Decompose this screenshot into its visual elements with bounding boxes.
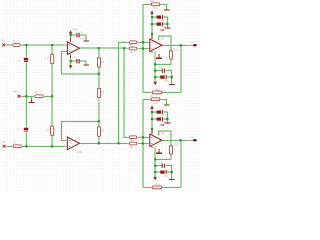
wire cross column to op3 soft bbox=[119, 42, 128, 143]
op-amp IC1A +/- marks bbox=[69, 45, 70, 51]
pin stubs op3 inputs bbox=[147, 42, 150, 48]
wire input row B bbox=[6, 145, 67, 147]
red plus marks caps bbox=[160, 29, 164, 31]
wire cross column to op4 bbox=[124, 48, 127, 137]
junction op3 output bbox=[180, 44, 182, 46]
junction out1 cross bbox=[123, 47, 125, 49]
junction op3 -in bottom bbox=[142, 47, 144, 49]
wire big feedback loop bbox=[143, 45, 181, 92]
junction capA left bbox=[154, 70, 156, 72]
wire op1 V+ rail bbox=[71, 34, 87, 41]
op-amp IC1A pin stubs bbox=[65, 45, 68, 51]
wire VCC column op3 soft bbox=[151, 14, 153, 39]
svg-text:R11: R11 bbox=[173, 49, 178, 52]
op-amp IC1B bbox=[67, 137, 79, 150]
resistor mid pair top A bbox=[130, 41, 137, 44]
cap op1 bottom plates bbox=[77, 59, 79, 64]
op-amp IC1A power pins bbox=[70, 37, 72, 58]
resistor R5c chain bbox=[97, 127, 100, 136]
wire gnd stub mid bbox=[30, 96, 32, 99]
junction capB left bbox=[154, 76, 156, 78]
junction VCC cap1 bbox=[151, 16, 153, 18]
wire cross column to op3 bbox=[119, 42, 128, 143]
resistor mid pair top B bbox=[130, 47, 137, 50]
wire -in column op3 bbox=[142, 4, 144, 92]
wire out row op3 bbox=[162, 44, 188, 46]
wire out op2 row bbox=[79, 142, 127, 144]
wire -in op1 branch soft bbox=[61, 51, 98, 73]
gnd bar op1 bottom cap bbox=[84, 64, 90, 66]
cap C2 pin bbox=[25, 126, 27, 133]
labels left bbox=[1, 29, 105, 154]
power pin op3 top bbox=[151, 34, 153, 39]
resistor R loop top bbox=[151, 3, 160, 6]
resistor R1 bbox=[13, 44, 20, 47]
op-amp IC2A +/- marks bbox=[151, 42, 152, 48]
wire input row B soft bbox=[6, 145, 67, 147]
junction out1 bbox=[98, 47, 100, 49]
junction node A2 bbox=[51, 44, 53, 46]
junction fb A bbox=[98, 73, 100, 75]
resistor mid pair bottom A bbox=[130, 136, 137, 139]
cap C1 plate bbox=[24, 60, 28, 62]
wire -in op1 branch bbox=[61, 51, 98, 73]
wire out op1 row bbox=[79, 47, 127, 49]
op-amp IC1B +/- marks bbox=[69, 140, 70, 146]
lead R2 leads bbox=[33, 95, 44, 97]
X connector IN B bbox=[3, 145, 6, 148]
cap B elec plate bbox=[165, 75, 167, 79]
X connector IN mid bbox=[18, 95, 21, 98]
lead R1b leads bbox=[6, 145, 23, 147]
cap C1 body bbox=[24, 58, 28, 61]
VCC arrow op3 bbox=[150, 10, 154, 14]
junction op1 V+ bbox=[70, 34, 72, 36]
wire R3 branch down soft bbox=[51, 45, 53, 146]
junction capB right bbox=[171, 76, 173, 78]
VEE arrow op1 bbox=[69, 65, 72, 68]
gnd bar below op3 bbox=[156, 57, 162, 59]
power pin op3 bottom bbox=[151, 52, 153, 53]
svg-text:INR: INR bbox=[1, 141, 6, 144]
svg-text:IC2A: IC2A bbox=[159, 38, 165, 41]
junction node A1 bbox=[25, 44, 27, 46]
X out pad bbox=[193, 44, 197, 46]
wire capB row soft bbox=[155, 76, 172, 78]
wire comp box op3 soft bbox=[158, 36, 171, 51]
resistor R5b chain bbox=[97, 88, 100, 97]
junction op1 V- bbox=[70, 60, 72, 62]
wire VCC column op3 bbox=[151, 14, 153, 39]
junction out2 cross bbox=[117, 142, 119, 144]
wire R-gnd loop top bbox=[143, 4, 167, 9]
junction cap2 right bbox=[166, 23, 168, 25]
wire cap row 1 soft bbox=[152, 17, 167, 28]
X connector IN A bbox=[2, 44, 5, 47]
wire input row A soft bbox=[5, 44, 68, 46]
svg-text:VCC: VCC bbox=[153, 7, 158, 10]
gnd bar top loop bbox=[164, 9, 170, 11]
wire cap row 1 bbox=[152, 17, 167, 28]
cap C elec 1 plate bbox=[161, 15, 163, 19]
cap C2 plate bbox=[24, 130, 28, 132]
cap C elec 1 body bbox=[157, 16, 161, 19]
gnd bar mid row bbox=[29, 101, 35, 103]
wire R3 branch down bbox=[51, 45, 53, 146]
resistor Rv bbox=[170, 51, 173, 59]
wire input row A bbox=[5, 44, 68, 46]
junction V- row bbox=[154, 63, 156, 65]
resistor big loop bbox=[152, 91, 162, 94]
svg-text:C10: C10 bbox=[164, 80, 169, 83]
resistor R1b bbox=[13, 145, 21, 148]
op-amp IC1B pin stubs bbox=[65, 140, 68, 146]
resistor R3 vertical bbox=[51, 54, 54, 63]
grid dots bbox=[0, 0, 200, 192]
wire -in op2 branch bbox=[61, 121, 98, 140]
wire mid row bbox=[21, 95, 53, 97]
VEE arrow op3 bbox=[153, 82, 157, 85]
wire comp box op3 bbox=[158, 36, 171, 51]
svg-text:R10: R10 bbox=[155, 88, 160, 91]
wire op1 V- rail bbox=[71, 58, 87, 65]
gnd stub mid row bbox=[30, 99, 32, 102]
wire cap row 2 soft bbox=[152, 23, 167, 25]
wire out row op3 soft bbox=[162, 44, 188, 46]
junction node B2 bbox=[51, 145, 53, 147]
wire gnd stub mid soft bbox=[30, 96, 32, 99]
wire capA row bbox=[155, 71, 172, 84]
VCC arrow op1 bbox=[69, 30, 72, 33]
wire V- branch op3 bbox=[155, 52, 171, 82]
wire capA row soft bbox=[155, 71, 172, 84]
cap A film plates bbox=[162, 69, 164, 73]
junction dots left bbox=[25, 34, 125, 147]
wire capB row bbox=[155, 76, 172, 78]
gnd bar op1 top cap bbox=[84, 40, 90, 42]
wire V- branch op3 soft bbox=[155, 52, 171, 82]
junction fb B bbox=[98, 120, 100, 122]
junction node B1 bbox=[25, 145, 27, 147]
cap C elec 2 body bbox=[157, 23, 161, 26]
wire -in op2 branch soft bbox=[61, 121, 98, 140]
junction VCC cap2 bbox=[151, 23, 153, 25]
lead R1 left bbox=[5, 44, 13, 46]
junction out2 bbox=[98, 142, 100, 144]
labels op3 bbox=[130, 0, 195, 91]
wire Rv to V- row bbox=[170, 59, 172, 64]
cap C elec 2 plate bbox=[161, 22, 163, 26]
cap C1 pin bbox=[25, 57, 27, 63]
wire big feedback loop soft bbox=[143, 45, 181, 92]
svg-text:VCC: VCC bbox=[73, 29, 78, 32]
resistor R4 vertical bbox=[51, 126, 54, 135]
wire -in column op3 soft bbox=[142, 4, 144, 92]
wire Rf chain column soft bbox=[98, 48, 100, 143]
resistor R2 mid bbox=[35, 95, 43, 98]
cap C2 body bbox=[24, 128, 28, 131]
junction op3 -in top bbox=[142, 41, 144, 43]
resistor mid pair bottom B bbox=[130, 142, 137, 145]
wire R-gnd loop top soft bbox=[143, 4, 167, 9]
wire C1 branch down bbox=[25, 45, 27, 146]
wire in-row stubs op3 soft bbox=[140, 42, 147, 48]
lead mid pair top bbox=[127, 42, 140, 48]
wire out op1 row soft bbox=[79, 47, 127, 49]
junction VCC pin bbox=[151, 33, 153, 35]
junction dots op3 bbox=[142, 16, 182, 78]
wire Rf chain column bbox=[98, 48, 100, 143]
svg-text:IC1B: IC1B bbox=[76, 151, 82, 154]
wire cross column to op4 soft bbox=[124, 48, 127, 137]
wire op1 V+ rail soft bbox=[71, 34, 87, 41]
wire cap row 2 bbox=[152, 23, 167, 25]
cap B elec body bbox=[160, 76, 164, 79]
lead R loop top bbox=[148, 3, 162, 5]
svg-text:IC1A: IC1A bbox=[80, 37, 86, 40]
wire op1 V- rail soft bbox=[71, 58, 87, 65]
op4 section translated copy bbox=[130, 95, 197, 189]
gnd stub below op3 bbox=[158, 54, 160, 58]
junction mid R3 bbox=[51, 95, 53, 97]
wire in-row stubs op3 bbox=[140, 42, 147, 48]
op-amp IC1A bbox=[67, 42, 79, 55]
wire C1 branch down soft bbox=[25, 45, 27, 146]
gnd bar vcc caps bbox=[165, 27, 171, 29]
lead mid pair bottom bbox=[127, 137, 140, 143]
gnd bar cluster caps bbox=[169, 84, 175, 86]
lead R1 right bbox=[20, 44, 21, 46]
lead R big loop bbox=[149, 91, 164, 93]
lead X2 pin bbox=[20, 95, 23, 97]
svg-text:INC: INC bbox=[14, 91, 19, 94]
wire mid row soft bbox=[21, 95, 53, 97]
op-amp IC2A bbox=[150, 39, 162, 52]
pin stub op3 out to pad bbox=[187, 44, 193, 46]
svg-text:INL: INL bbox=[1, 39, 6, 42]
wire out op2 row soft bbox=[79, 142, 127, 144]
resistor R5a chain bbox=[97, 58, 100, 67]
junction mid C1 bbox=[25, 95, 27, 97]
cap op1 top plates bbox=[77, 33, 79, 38]
wire Rv to V- row soft bbox=[170, 59, 172, 64]
